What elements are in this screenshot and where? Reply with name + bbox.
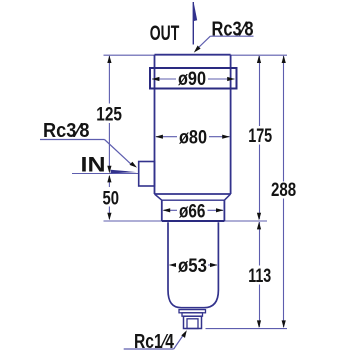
inlet boss [139, 162, 155, 187]
arrow left dia90 [152, 77, 160, 81]
arrow up 288 top [282, 55, 286, 63]
drain port outer [184, 316, 202, 328]
top extension line left [104, 54, 155, 56]
body left edge [154, 55, 156, 194]
svg-text:OUT: OUT [150, 22, 180, 45]
inlet centerline extension [72, 173, 139, 175]
bottom extension line [206, 328, 288, 330]
label dia80 [177, 128, 209, 146]
OUT flow arrow shaft [192, 2, 194, 45]
svg-text:ø90: ø90 [178, 68, 206, 90]
label 288 [269, 182, 299, 199]
top extension line right [231, 54, 287, 56]
svg-text:175: 175 [248, 125, 272, 147]
body bottom edge [155, 193, 231, 195]
OUT flow arrow head [193, 3, 197, 21]
label dia66 [177, 202, 208, 219]
leader left Rc3/8 diagonal [105, 140, 133, 166]
dimension line 113 [259, 222, 261, 327]
arrow right dia53 [210, 263, 218, 267]
collar dia66 left edge [161, 200, 163, 221]
dimension line dia53 [170, 264, 218, 266]
dimension line dia66 [164, 209, 224, 211]
label 113 [246, 266, 274, 285]
label dia90 [176, 70, 208, 88]
dimension line dia90 [152, 78, 235, 80]
arrow right dia90 [227, 77, 235, 81]
chamfer right [224, 194, 230, 200]
drain port inner [187, 319, 198, 329]
label dia53 [176, 257, 208, 274]
leader top arrowhead [194, 46, 201, 53]
dimension line 175 [259, 56, 261, 219]
arrow down 175 bottom [257, 213, 261, 221]
arrow down 50 bottom [107, 213, 111, 221]
dimension line 125 [108, 56, 110, 171]
arrow left dia66 [163, 208, 171, 212]
chamfer left [155, 194, 162, 200]
leader top Rc3/8 underline [210, 35, 253, 37]
svg-text:Rc3⁄8: Rc3⁄8 [212, 19, 254, 41]
svg-text:Rc3⁄8: Rc3⁄8 [43, 120, 90, 142]
arrow down 113 bottom [257, 320, 261, 328]
collar dia66 top edge [162, 199, 225, 201]
arrow right dia66 [216, 208, 224, 212]
leader left Rc3/8 underline [40, 139, 105, 141]
leader top Rc3/8 diagonal [197, 36, 211, 49]
svg-text:Rc1⁄4: Rc1⁄4 [134, 331, 175, 350]
arrow left dia53 [169, 263, 177, 267]
dimension line 50 [108, 176, 110, 219]
svg-text:ø66: ø66 [179, 200, 206, 222]
body right edge [230, 55, 232, 194]
leader bottom Rc1/4 diagonal [174, 334, 184, 349]
arrow right dia80 [222, 135, 230, 139]
arrow up 113 top [257, 222, 261, 230]
svg-text:IN: IN [81, 154, 106, 177]
label 175 [246, 126, 275, 145]
leader left arrowhead [130, 162, 138, 168]
cap ring dia90 [150, 68, 237, 89]
svg-text:ø80: ø80 [179, 127, 207, 149]
arrow down 125 bottom [107, 166, 111, 174]
svg-text:125: 125 [96, 103, 122, 125]
label 125 [95, 104, 125, 124]
svg-text:ø53: ø53 [178, 255, 207, 277]
svg-text:288: 288 [271, 179, 296, 201]
bowl dia53 [168, 222, 218, 307]
body neck top edge [155, 54, 231, 56]
drain neck [182, 313, 203, 316]
leader bottom Rc1/4 underline [124, 348, 174, 350]
mid extension line left [104, 220, 162, 222]
arrow up 125 top [107, 55, 111, 63]
label 50 [100, 187, 121, 207]
dimension line dia80 [156, 136, 230, 138]
arrow up 175 top [257, 55, 261, 63]
collar dia66 right edge [223, 200, 225, 221]
arrow up 50 top [107, 175, 111, 183]
IN flow arrow [111, 170, 137, 174]
arrow left dia80 [155, 135, 163, 139]
drain flange [179, 310, 206, 313]
svg-text:50: 50 [103, 187, 120, 209]
leader bottom arrowhead [181, 330, 187, 338]
mid extension line right [224, 220, 267, 222]
arrow down 288 bottom [282, 320, 286, 328]
collar dia66 bottom edge [162, 220, 225, 222]
svg-text:113: 113 [248, 265, 271, 287]
dimension line 288 [283, 56, 285, 327]
